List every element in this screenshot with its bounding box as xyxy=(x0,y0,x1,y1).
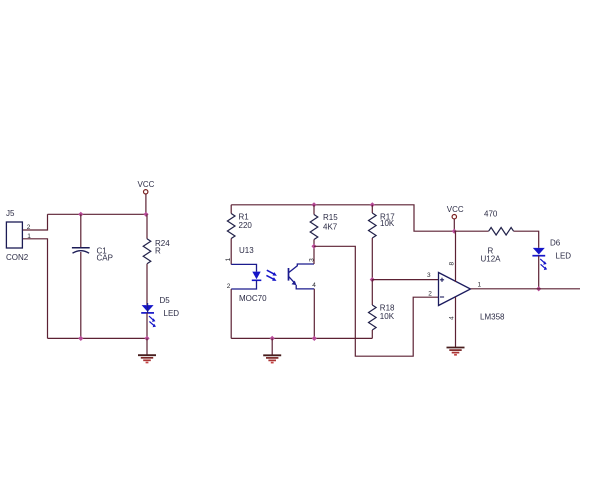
opto phototransistor of U13 xyxy=(289,264,315,289)
svg-text:10K: 10K xyxy=(380,312,395,321)
svg-text:4: 4 xyxy=(312,282,316,289)
node junction VCC/R24 xyxy=(143,212,148,217)
svg-text:MOC70: MOC70 xyxy=(239,294,267,303)
svg-text:U13: U13 xyxy=(239,246,254,255)
opto LED of U13 xyxy=(252,272,261,281)
wire junction to op-amp pin2 (down and around) xyxy=(314,246,438,356)
svg-text:470: 470 xyxy=(484,210,498,219)
wire R18 bottom to rail xyxy=(371,330,373,338)
node junction D6/output xyxy=(536,286,541,291)
svg-text:LM358: LM358 xyxy=(480,313,505,322)
svg-text:3: 3 xyxy=(309,258,316,262)
svg-text:2: 2 xyxy=(227,283,231,290)
svg-text:D6: D6 xyxy=(550,239,561,248)
wire J5 pin1 to bottom rail xyxy=(23,239,48,339)
LED D6 xyxy=(532,239,571,271)
resistor R 470 xyxy=(481,210,514,264)
svg-text:CAP: CAP xyxy=(97,254,113,263)
node junction R17/R18/pin3 xyxy=(370,277,375,282)
node junction VCC/rail xyxy=(452,229,457,234)
wire output rail xyxy=(471,288,581,290)
opto LED input wire xyxy=(231,264,256,271)
opto LED cathode wire to pin 2 xyxy=(231,280,256,289)
optocoupler U13 xyxy=(239,246,267,303)
power symbol VCC (right) xyxy=(447,205,464,219)
power symbol VCC (left) xyxy=(138,180,155,194)
connector J5 xyxy=(6,209,29,262)
wire D6 to output rail xyxy=(538,256,540,289)
svg-text:1: 1 xyxy=(225,257,232,261)
LED D5 xyxy=(141,296,179,327)
svg-text:LED: LED xyxy=(164,309,180,318)
wire D5 to bottom rail xyxy=(146,313,148,339)
wire VCC stem (right) xyxy=(453,219,455,231)
ground (op-amp) xyxy=(447,348,465,355)
resistor R15 xyxy=(310,205,338,240)
node junction R17 top xyxy=(370,202,375,207)
svg-text:220: 220 xyxy=(239,221,253,230)
svg-text:R15: R15 xyxy=(323,213,338,222)
wire R1 to opto pin1 xyxy=(230,239,232,265)
svg-text:VCC: VCC xyxy=(447,205,464,214)
wire opto emitter down to bottom rail xyxy=(313,289,315,339)
svg-text:10K: 10K xyxy=(380,219,395,228)
svg-text:D5: D5 xyxy=(160,296,171,305)
wire middle bottom rail xyxy=(231,337,372,339)
svg-text:VCC: VCC xyxy=(138,180,155,189)
node junction R15 top xyxy=(311,202,316,207)
svg-text:U12A: U12A xyxy=(481,255,502,264)
svg-text:CON2: CON2 xyxy=(6,253,29,262)
wire 470 to D6 xyxy=(514,231,539,248)
svg-text:J5: J5 xyxy=(6,209,15,218)
resistor R1 xyxy=(227,205,252,239)
capacitor C1 xyxy=(72,214,113,338)
wire VCC stem (left) xyxy=(145,194,147,214)
svg-text:3: 3 xyxy=(427,272,431,279)
svg-text:R: R xyxy=(155,247,161,256)
wire bottom-left rail xyxy=(48,337,148,339)
resistor R17 xyxy=(369,205,396,238)
node junction C1 bottom xyxy=(78,336,83,341)
wire middle top rail xyxy=(231,205,454,231)
svg-text:4: 4 xyxy=(449,316,456,320)
svg-text:8: 8 xyxy=(448,262,455,266)
wire R24 to D5 xyxy=(146,264,148,305)
wire rail VCC to resistor 470 xyxy=(454,230,488,232)
resistor R18 xyxy=(369,280,396,330)
node junction R15/collector xyxy=(311,244,316,249)
ground (middle) xyxy=(263,338,281,362)
wire op-amp pin4 to ground xyxy=(455,297,457,347)
svg-text:2: 2 xyxy=(428,291,432,298)
wire junction to op-amp pin3 xyxy=(372,279,438,281)
opto light arrows xyxy=(266,270,277,281)
node junction emitter/rail xyxy=(312,336,317,341)
ground (left) xyxy=(138,338,156,362)
node junction ground (middle) xyxy=(270,336,275,341)
wire R17 to junction xyxy=(371,238,373,280)
wire J5 pin2 to top rail xyxy=(23,214,48,230)
wire op-amp pin8 power xyxy=(455,231,457,282)
wire opto pin2 down to bottom rail xyxy=(230,289,232,338)
svg-text:4K7: 4K7 xyxy=(323,223,338,232)
node junction D5/ground xyxy=(144,336,149,341)
resistor R24 xyxy=(143,214,170,263)
op-amp U12A xyxy=(439,273,506,322)
node junction C1 top xyxy=(78,212,83,217)
svg-text:1: 1 xyxy=(478,282,482,289)
wire top-left rail xyxy=(48,213,148,215)
wire R15 bottom to junction and collector xyxy=(313,240,315,265)
svg-text:LED: LED xyxy=(556,252,572,261)
